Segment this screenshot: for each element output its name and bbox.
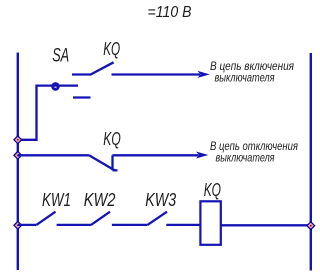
contact KQ (NC) blade, row 2 — [89, 155, 115, 170]
wire row 2 left — [18, 154, 89, 156]
svg-text:выключателя: выключателя — [216, 151, 275, 165]
arrow head row 2 — [196, 152, 208, 159]
contact KQ (NC) fixed terminal vertical — [111, 155, 113, 170]
arrow head row 1 — [198, 71, 210, 78]
wire: bus to SA common (L-shaped) — [18, 86, 78, 140]
node A: bus junction row 1 — [14, 136, 22, 144]
svg-text:KQ: KQ — [103, 129, 121, 149]
wire row 3 segment 1 — [18, 224, 37, 226]
right bus (-) — [310, 53, 312, 271]
wire row 3 segment 2 — [57, 224, 91, 226]
relay coil KQ — [200, 201, 220, 245]
wire row 2 to arrow — [113, 154, 199, 156]
svg-text:KW1: KW1 — [42, 190, 71, 210]
svg-text:KW3: KW3 — [145, 190, 176, 210]
wire row 3 segment 3 — [112, 224, 148, 226]
contact KW1 blade — [36, 212, 55, 225]
svg-text:KQ: KQ — [204, 180, 221, 200]
svg-text:=110 В: =110 В — [148, 4, 192, 21]
contact KQ (NO) blade, row 1 — [91, 62, 114, 74]
switch SA common node (circle) — [53, 84, 59, 90]
contact KW2 blade — [91, 212, 110, 225]
node B: bus junction row 2 — [14, 151, 22, 159]
svg-text:KQ: KQ — [103, 39, 120, 59]
node D: bus junction row 3 right — [307, 222, 315, 230]
contact KQ (NC) terminal foot — [113, 169, 118, 171]
left bus (+) — [17, 53, 19, 271]
svg-text:KW2: KW2 — [84, 190, 116, 210]
svg-text:SA: SA — [52, 46, 69, 67]
switch SA lower fixed contact — [73, 96, 91, 98]
wire row 1 to arrow — [112, 73, 201, 75]
wire row 3 segment 4 — [166, 224, 199, 226]
contact KW3 blade — [148, 212, 168, 225]
wire row 3 segment 5 — [222, 224, 311, 226]
svg-text:выключателя: выключателя — [215, 71, 275, 85]
node C: bus junction row 3 left — [14, 221, 22, 229]
switch SA upper fixed contact — [72, 73, 91, 75]
